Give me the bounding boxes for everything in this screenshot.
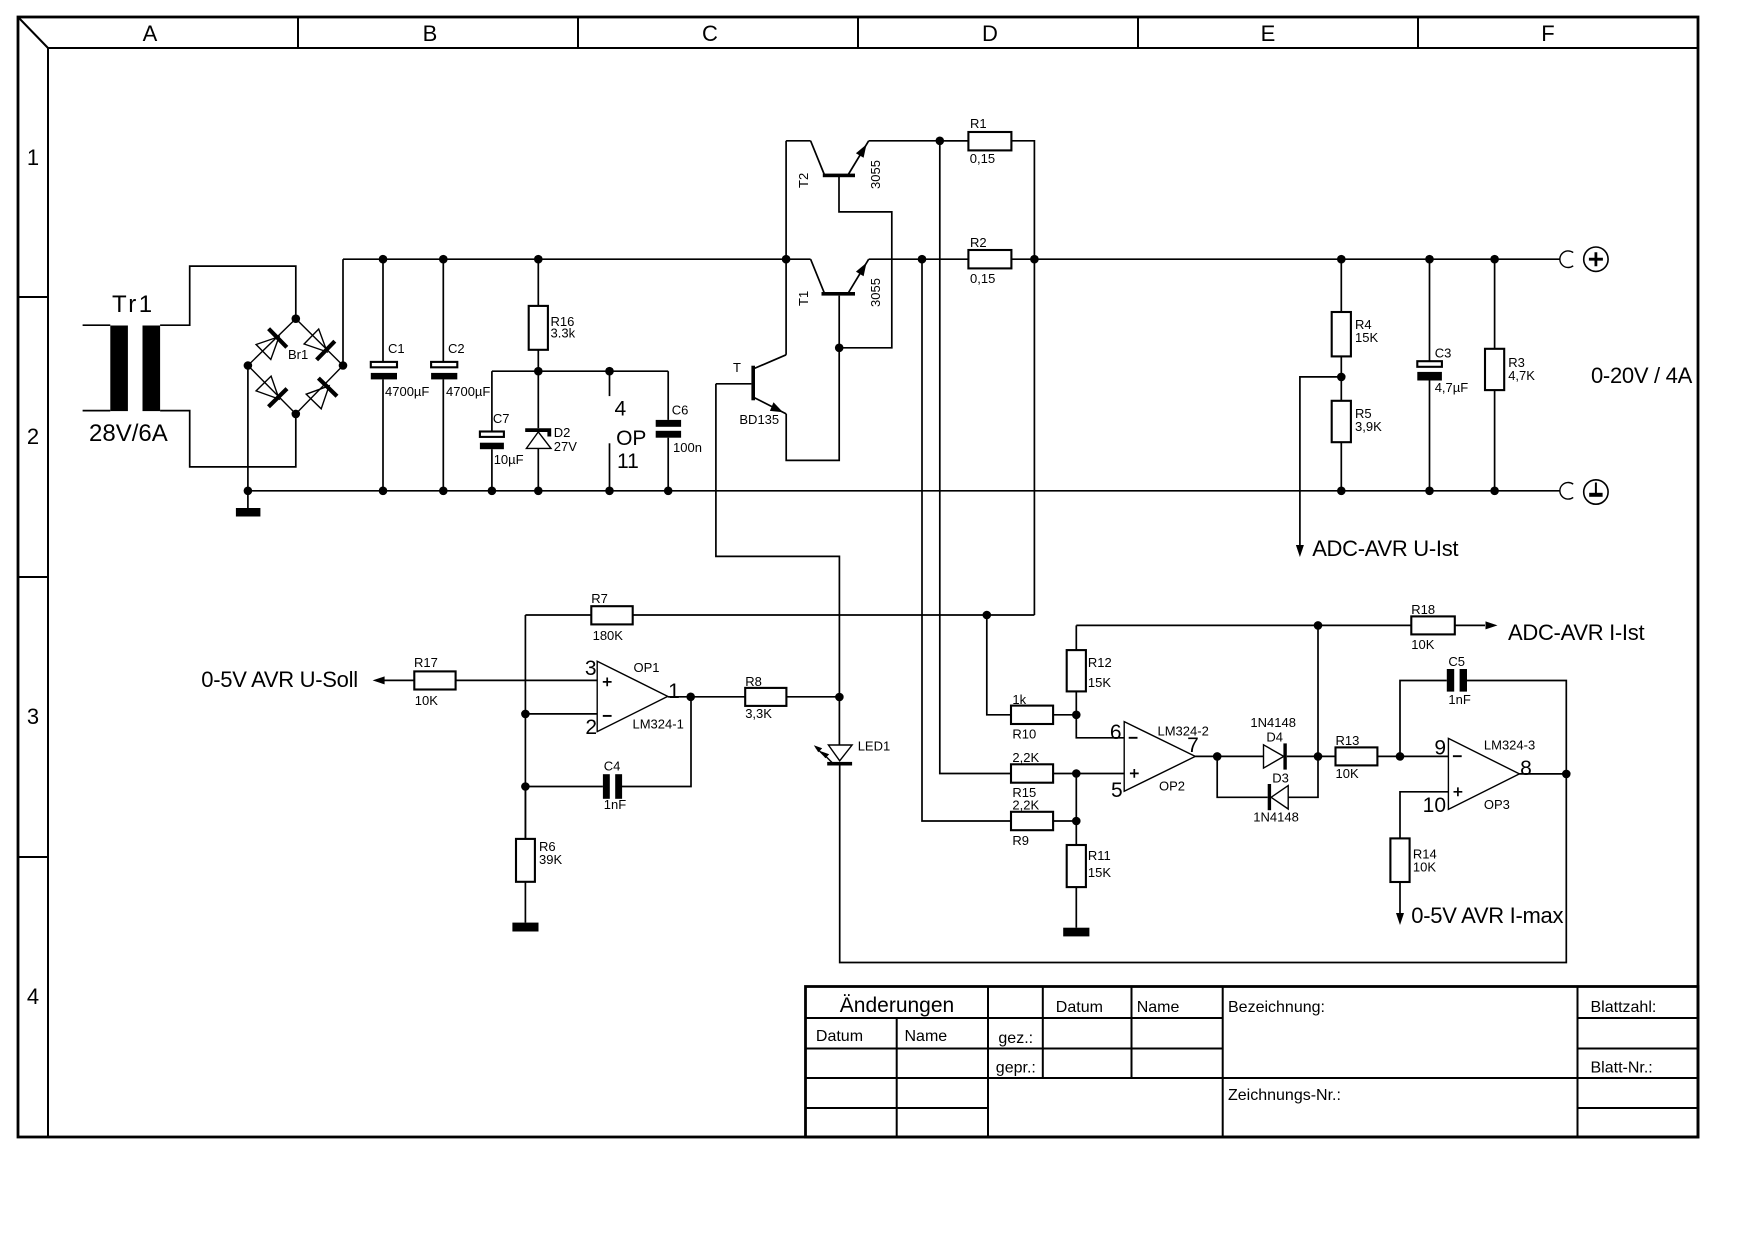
- wire op-amp supply pin 11 stub: [609, 443, 611, 491]
- resistor R13 right lead: [1377, 755, 1400, 757]
- node OP3 output junction with C5 and loop: [1562, 770, 1571, 779]
- svg-text:3055: 3055: [868, 278, 883, 307]
- svg-text:10: 10: [1423, 794, 1446, 817]
- resistor R12 body: [1067, 650, 1086, 691]
- svg-text:180K: 180K: [593, 628, 624, 643]
- svg-text:R12: R12: [1088, 655, 1112, 670]
- wire R10 lead from feedback node: [987, 615, 1011, 715]
- OP2 plus input sign: [1130, 769, 1139, 778]
- node C2 on ground rail: [439, 487, 448, 496]
- wire feedback line R7 row: [525, 614, 1034, 616]
- transistor T2 collector diagonal: [811, 141, 825, 175]
- title block vertical datum-name divider left: [896, 1018, 898, 1137]
- wire LED1 cathode loop to OP3 output: [840, 766, 1567, 963]
- svg-text:3.3k: 3.3k: [551, 326, 576, 341]
- transistor T BD135 base bar: [751, 366, 755, 401]
- svg-text:OP3: OP3: [1484, 797, 1510, 812]
- wire OP1 pin3 input row: [380, 679, 597, 681]
- svg-text:1: 1: [27, 145, 39, 170]
- title block vertical bezeichnung left edge: [1222, 987, 1224, 1138]
- node C6 on ground rail: [664, 487, 673, 496]
- node OP1 output pin1: [686, 693, 695, 702]
- node R2 sense junction on rail: [918, 255, 927, 264]
- frame corner diagonal: [18, 17, 48, 48]
- svg-text:10K: 10K: [415, 693, 438, 708]
- transistor T BD135 collector diagonal: [753, 355, 786, 369]
- svg-text:4,7K: 4,7K: [1508, 368, 1535, 383]
- svg-text:Tr1: Tr1: [112, 291, 155, 318]
- svg-text:4,7µF: 4,7µF: [1435, 380, 1469, 395]
- output terminal plus sign: [1589, 252, 1603, 266]
- node OP1 pin2 junction: [521, 710, 530, 719]
- resistor R6 body: [516, 839, 535, 882]
- LED LED1 triangle: [828, 745, 852, 761]
- bridge rectifier Br1 diamond sides: [248, 319, 343, 414]
- node T2 emitter R1 sense junction: [936, 137, 945, 146]
- capacitor C7 plus plate: [480, 432, 504, 437]
- title block horizontal line row2: [806, 1048, 1699, 1050]
- wire R10 right lead: [1053, 714, 1076, 716]
- resistor R16 bottom lead: [537, 350, 539, 371]
- capacitor C1 bottom lead: [382, 379, 384, 490]
- title block outer border: [806, 987, 1699, 1138]
- svg-text:F: F: [1541, 21, 1554, 46]
- wire C5 branch up from pin9 node: [1400, 681, 1447, 757]
- node R16 on +V rail: [534, 255, 543, 264]
- zener D2 bottom lead: [537, 448, 539, 490]
- capacitor C1 plus plate: [371, 362, 397, 367]
- node T2 base on T1 emitter: [835, 344, 844, 353]
- Br1 diode D-BL cathode bar: [269, 389, 288, 407]
- svg-text:R7: R7: [591, 591, 608, 606]
- wire Tr1 secondary bottom lead to bridge AC bottom: [160, 411, 296, 467]
- wire R18 right lead: [1455, 624, 1485, 626]
- svg-text:0-5V AVR U-Soll: 0-5V AVR U-Soll: [201, 667, 357, 692]
- svg-text:C6: C6: [672, 403, 689, 418]
- resistor R5 bottom lead: [1340, 442, 1342, 491]
- ground symbol below bridge: [236, 508, 261, 517]
- Br1 diode D-TR cathode bar: [317, 341, 335, 360]
- resistor R16 body: [529, 306, 548, 350]
- wire vertical I-Ist feed to R13 node: [1317, 625, 1319, 756]
- node R9 junction: [1072, 817, 1081, 826]
- OP1 plus input sign: [603, 678, 612, 687]
- svg-text:D2: D2: [554, 425, 571, 440]
- node R16 bottom at D2: [534, 367, 543, 376]
- svg-text:2,2K: 2,2K: [1012, 750, 1039, 765]
- arrow 0-5V AVR U-Soll: [373, 676, 385, 684]
- svg-text:T2: T2: [796, 173, 811, 188]
- wire bridge minus down to ground rail: [247, 366, 249, 509]
- svg-text:11: 11: [617, 450, 639, 473]
- svg-text:R9: R9: [1012, 833, 1029, 848]
- svg-text:10K: 10K: [1336, 766, 1359, 781]
- arrow ADC-AVR I-Ist: [1486, 621, 1498, 629]
- wire T2 emitter to R1: [869, 140, 969, 142]
- wire OP2 pin6 jog: [1076, 715, 1124, 738]
- wire R15 right lead to OP2 pin5: [1053, 773, 1124, 775]
- ground symbol below R6: [512, 923, 538, 932]
- capacitor C7 bottom lead: [491, 449, 493, 491]
- title block horizontal line row3 full: [806, 1077, 1699, 1079]
- wire OP1 left vertical R7 to R6: [524, 615, 526, 839]
- node OP2 output pin7: [1213, 752, 1222, 761]
- svg-text:Zeichnungs-Nr.:: Zeichnungs-Nr.:: [1228, 1087, 1341, 1104]
- LED LED1 cathode bar: [827, 762, 852, 766]
- svg-text:OP2: OP2: [1159, 779, 1185, 794]
- svg-text:15K: 15K: [1088, 865, 1111, 880]
- svg-text:R18: R18: [1411, 602, 1435, 617]
- svg-text:6: 6: [1110, 721, 1122, 744]
- resistor R15 body: [1011, 764, 1053, 782]
- wire zener supply node row C7 to C6: [492, 370, 668, 372]
- resistor R11 bottom lead: [1075, 887, 1077, 928]
- svg-text:D3: D3: [1272, 771, 1289, 786]
- wire T2 base routing to T1 emitter: [839, 177, 892, 348]
- title block vertical gez column divider: [1042, 987, 1044, 1079]
- resistor R7 body: [591, 606, 632, 624]
- resistor R3 bottom lead: [1494, 390, 1496, 491]
- svg-text:10K: 10K: [1411, 637, 1434, 652]
- OP2 minus input sign: [1129, 737, 1138, 739]
- node pin 11 stub on ground rail: [605, 487, 614, 496]
- wire T2 collector drop to rail: [785, 141, 787, 259]
- wire OP1 pin2 input row: [525, 713, 597, 715]
- OP3 plus input sign: [1454, 787, 1463, 796]
- svg-text:0,15: 0,15: [970, 271, 995, 286]
- svg-text:R10: R10: [1012, 727, 1036, 742]
- resistor R13 left lead: [1318, 755, 1336, 757]
- node C1 on ground rail: [379, 487, 388, 496]
- resistor R14 body: [1390, 838, 1409, 882]
- capacitor C4 plate right: [615, 774, 622, 799]
- svg-text:C4: C4: [604, 759, 621, 774]
- capacitor C3 bottom lead: [1429, 381, 1431, 491]
- op-amp U3 OP3 triangle: [1448, 738, 1519, 809]
- node R3 on +V rail: [1490, 255, 1499, 264]
- node C3 on +V rail: [1425, 255, 1434, 264]
- Br1 diode D-BR cathode bar: [318, 378, 337, 396]
- node D4 R13 junction: [1314, 752, 1323, 761]
- svg-text:3: 3: [27, 704, 39, 729]
- svg-text:0,15: 0,15: [970, 151, 995, 166]
- svg-text:R11: R11: [1088, 848, 1111, 863]
- wire OP2 output to D4: [1195, 755, 1263, 757]
- diode D3 triangle: [1271, 786, 1288, 809]
- transformer Tr1 primary winding bar: [110, 326, 128, 412]
- svg-text:Blatt-Nr.:: Blatt-Nr.:: [1591, 1060, 1653, 1077]
- node feedback to R10 junction: [983, 611, 992, 620]
- op-amp U2 OP2 triangle: [1124, 722, 1195, 792]
- capacitor C6 bottom lead: [667, 438, 669, 491]
- svg-text:8: 8: [1520, 757, 1532, 780]
- svg-text:C7: C7: [493, 411, 510, 426]
- transistor T2 base bar: [823, 174, 855, 178]
- wire C4 branch from output down and left: [622, 697, 691, 787]
- capacitor C5 plate right: [1460, 669, 1467, 692]
- wire Tr1 primary top lead: [83, 324, 111, 326]
- capacitor C6 plate 1: [656, 420, 681, 427]
- resistor R4 body: [1332, 312, 1351, 356]
- wire OP1 output row to R8 node: [668, 696, 840, 698]
- svg-text:R13: R13: [1336, 733, 1360, 748]
- node C1 on +V rail: [379, 255, 388, 264]
- wire D4 cathode to node: [1287, 755, 1318, 757]
- transistor T1 emitter diagonal: [848, 259, 869, 293]
- node C4 on left vertical: [521, 782, 530, 791]
- resistor R1 body: [968, 132, 1011, 150]
- svg-text:2: 2: [27, 424, 39, 449]
- wire ground rail: [248, 490, 1560, 492]
- wire T1 emitter down and over to BD135 emitter: [786, 296, 839, 461]
- svg-text:1nF: 1nF: [604, 797, 626, 812]
- Br1 diode D-TR triangle: [304, 329, 327, 352]
- wire +V rail left run (bridge to T1 collector): [343, 258, 811, 260]
- resistor R8 body: [745, 688, 786, 706]
- svg-text:C2: C2: [448, 341, 465, 356]
- wire R12 top lead to I-sense feed line: [1075, 625, 1077, 650]
- frame left strip line: [47, 48, 49, 1137]
- resistor R4 bottom lead: [1340, 356, 1342, 377]
- resistor R11 body: [1067, 845, 1086, 887]
- transistor T BD135 emitter diagonal: [753, 397, 786, 414]
- svg-text:R2: R2: [970, 235, 987, 250]
- node I-Ist feed at R13 branch: [1314, 621, 1323, 630]
- svg-text:1nF: 1nF: [1448, 692, 1470, 707]
- node ground rail at bridge: [244, 487, 253, 496]
- Br1 diode D-TL cathode bar: [269, 329, 287, 348]
- node C7 on ground rail: [488, 487, 497, 496]
- svg-text:LM324-3: LM324-3: [1484, 738, 1535, 753]
- svg-text:Blattzahl:: Blattzahl:: [1591, 999, 1657, 1016]
- node D2 on ground rail: [534, 487, 543, 496]
- transistor T1 emitter arrow: [856, 263, 867, 276]
- svg-text:4: 4: [615, 398, 627, 421]
- output terminal plus socket arc: [1560, 251, 1573, 268]
- svg-text:15K: 15K: [1088, 675, 1111, 690]
- wire Tr1 secondary top lead to bridge AC top: [160, 266, 296, 325]
- frame row ticks: [18, 297, 48, 857]
- wire BD135 base stub: [716, 383, 752, 385]
- svg-text:2: 2: [585, 716, 597, 739]
- svg-text:3,9K: 3,9K: [1355, 419, 1382, 434]
- svg-text:1k: 1k: [1012, 692, 1026, 707]
- wire R9 right lead: [1053, 820, 1076, 822]
- svg-text:Datum: Datum: [816, 1028, 863, 1045]
- node R15 pin5 junction: [1072, 769, 1081, 778]
- wire pin5 node down to R11: [1075, 774, 1077, 846]
- resistor R1 left lead: [940, 140, 969, 142]
- svg-text:Änderungen: Änderungen: [840, 994, 954, 1017]
- resistor R5 top lead: [1340, 377, 1342, 401]
- frame top strip line: [48, 47, 1698, 49]
- wire OP3 output pin8: [1519, 773, 1566, 775]
- node R5 on ground rail: [1337, 487, 1346, 496]
- Br1 diode D-TL triangle: [256, 337, 279, 360]
- wire R2 sense drop to R9: [922, 259, 1011, 821]
- capacitor C1 minus plate: [371, 373, 397, 380]
- svg-text:BD135: BD135: [739, 412, 779, 427]
- svg-text:R1: R1: [970, 116, 987, 131]
- arrow ADC-AVR U-Ist: [1296, 545, 1304, 557]
- LED LED1 anode lead: [838, 697, 840, 745]
- title block vertical blattzahl left edge: [1577, 987, 1579, 1138]
- frame column ticks: [298, 17, 1418, 48]
- svg-text:C1: C1: [388, 341, 405, 356]
- svg-text:0-5V AVR I-max: 0-5V AVR I-max: [1411, 903, 1563, 928]
- svg-text:3,3K: 3,3K: [745, 706, 772, 721]
- svg-text:4700µF: 4700µF: [385, 384, 429, 399]
- resistor R14 bottom lead: [1399, 882, 1401, 913]
- svg-text:B: B: [423, 21, 438, 46]
- svg-text:1: 1: [668, 680, 680, 703]
- wire T2 collector to +V rail junction: [786, 140, 811, 142]
- svg-text:100n: 100n: [673, 440, 702, 455]
- diode D4 triangle: [1264, 745, 1284, 768]
- node R10 R12 junction: [1072, 711, 1081, 720]
- resistor R12 bottom lead: [1075, 691, 1077, 714]
- zener D2 triangle: [526, 432, 551, 449]
- wire op-amp supply pin 4 stub: [609, 371, 611, 396]
- arrow 0-5V AVR I-max: [1396, 913, 1404, 925]
- svg-text:D4: D4: [1266, 730, 1283, 745]
- wire OP3 pin10 input and R14 drop: [1400, 792, 1448, 839]
- transistor T1 collector diagonal: [811, 259, 825, 293]
- OP3 minus input sign: [1453, 755, 1462, 757]
- svg-text:R8: R8: [745, 674, 762, 689]
- svg-text:C3: C3: [1435, 346, 1452, 361]
- node C2 on +V rail: [439, 255, 448, 264]
- capacitor C2 plus plate: [431, 362, 457, 367]
- wire BD135 base down around to R8 LED node: [716, 384, 840, 697]
- ground symbol below R11: [1063, 928, 1089, 937]
- svg-text:1N4148: 1N4148: [1250, 715, 1296, 730]
- resistor R17 body: [414, 671, 455, 689]
- svg-text:Name: Name: [905, 1028, 948, 1045]
- transistor T1 base bar: [822, 292, 856, 296]
- svg-text:R17: R17: [414, 655, 438, 670]
- svg-text:OP: OP: [616, 427, 646, 450]
- node T2 collector on +V rail: [782, 255, 791, 264]
- svg-text:39K: 39K: [539, 852, 562, 867]
- svg-text:C5: C5: [1448, 654, 1465, 669]
- svg-text:4: 4: [27, 984, 39, 1009]
- node bridge AC top junction: [292, 314, 301, 323]
- node R8 right at LED base node: [835, 693, 844, 702]
- OP1 minus input sign: [603, 715, 612, 717]
- wire R1 sense drop to R15: [940, 141, 1011, 774]
- capacitor C3 top lead: [1429, 259, 1431, 361]
- wire C5 right lead to OP3 output vertical: [1467, 681, 1566, 774]
- output terminal ground socket arc: [1560, 483, 1573, 500]
- output terminal ground circle: [1584, 480, 1608, 504]
- Br1 diode D-BR triangle: [306, 386, 329, 409]
- svg-text:ADC-AVR I-Ist: ADC-AVR I-Ist: [1508, 620, 1644, 645]
- svg-text:5: 5: [1111, 779, 1123, 802]
- LED LED1 light arrow 1: [816, 748, 826, 758]
- resistor R3 body: [1485, 349, 1504, 390]
- op-amp U1 OP1 triangle: [597, 661, 668, 731]
- capacitor C1 top lead: [382, 259, 384, 362]
- capacitor C5 plate left: [1447, 669, 1454, 692]
- resistor R16 top lead: [537, 259, 539, 306]
- zener D2 cathode bar with bent tail: [525, 430, 549, 436]
- node R1 R2 output junction on rail: [1030, 255, 1039, 264]
- svg-text:C: C: [702, 21, 718, 46]
- node R13 OP3 pin9 junction: [1396, 752, 1405, 761]
- transformer Tr1 secondary winding bar: [143, 326, 161, 412]
- capacitor C6 plate 2: [656, 431, 681, 438]
- svg-text:gepr.:: gepr.:: [996, 1060, 1036, 1077]
- svg-text:T: T: [733, 360, 741, 375]
- svg-text:Datum: Datum: [1056, 999, 1103, 1016]
- node bridge plus junction: [339, 361, 348, 370]
- svg-text:10K: 10K: [1413, 860, 1436, 875]
- wire BD135 collector drop from +V rail: [785, 259, 787, 355]
- svg-text:ADC-AVR U-Ist: ADC-AVR U-Ist: [1312, 536, 1458, 561]
- svg-text:3055: 3055: [868, 160, 883, 189]
- output terminal ground glyph: [1595, 483, 1597, 494]
- resistor R13 body: [1336, 747, 1378, 765]
- output terminal plus circle: [1584, 247, 1608, 271]
- resistor R5 body: [1332, 401, 1351, 442]
- svg-text:3: 3: [585, 657, 597, 680]
- node bridge AC bottom junction: [292, 410, 301, 419]
- capacitor C2 bottom lead: [442, 379, 444, 490]
- svg-text:A: A: [143, 21, 158, 46]
- wire Tr1 primary bottom lead: [83, 410, 111, 412]
- wire R1R2 output sense drop to feedback line: [1033, 259, 1035, 615]
- node R3 on ground rail: [1490, 487, 1499, 496]
- svg-text:28V/6A: 28V/6A: [89, 420, 168, 447]
- node R4 on +V rail: [1337, 255, 1346, 264]
- node OP supply stub: [605, 367, 614, 376]
- svg-text:LM324-2: LM324-2: [1158, 724, 1209, 739]
- svg-text:1N4148: 1N4148: [1253, 810, 1299, 825]
- svg-text:OP1: OP1: [634, 660, 660, 675]
- capacitor C6 top lead: [667, 371, 669, 420]
- transistor T2 emitter arrow: [856, 144, 867, 157]
- resistor R6 bottom lead: [524, 882, 526, 923]
- capacitor C2 top lead: [442, 259, 444, 362]
- svg-text:D: D: [982, 21, 998, 46]
- capacitor C3 minus plate: [1417, 372, 1442, 381]
- node C3 on ground rail: [1425, 487, 1434, 496]
- wire I-Ist feed line R12 to R18: [1076, 624, 1411, 626]
- capacitor C7 minus plate: [480, 443, 504, 450]
- svg-text:Br1: Br1: [288, 347, 308, 362]
- resistor R1 right lead and drop to rail: [1011, 141, 1034, 259]
- capacitor C3 plus plate: [1417, 361, 1442, 367]
- node bridge minus junction: [244, 361, 253, 370]
- wire OP3 pin9 input: [1400, 755, 1448, 757]
- svg-text:9: 9: [1434, 737, 1446, 760]
- Br1 diode D-BL triangle: [256, 376, 279, 399]
- title block horizontal line row4: [806, 1107, 1699, 1109]
- wire +V rail right run (T1 emitter R2 line to + terminal): [869, 258, 1561, 260]
- capacitor C2 minus plate: [431, 373, 457, 380]
- capacitor C4 plate left: [603, 774, 610, 799]
- zener diode D2 top lead: [537, 371, 539, 428]
- transistor T2 emitter diagonal: [848, 141, 869, 175]
- svg-text:0-20V / 4A: 0-20V / 4A: [1591, 363, 1693, 388]
- capacitor C7 top lead: [491, 371, 493, 431]
- svg-text:Name: Name: [1137, 999, 1180, 1016]
- resistor R3 top lead: [1494, 259, 1496, 349]
- resistor R4 top lead: [1340, 259, 1342, 312]
- resistor R10 body: [1011, 706, 1053, 724]
- title block vertical left section right edge: [987, 987, 989, 1138]
